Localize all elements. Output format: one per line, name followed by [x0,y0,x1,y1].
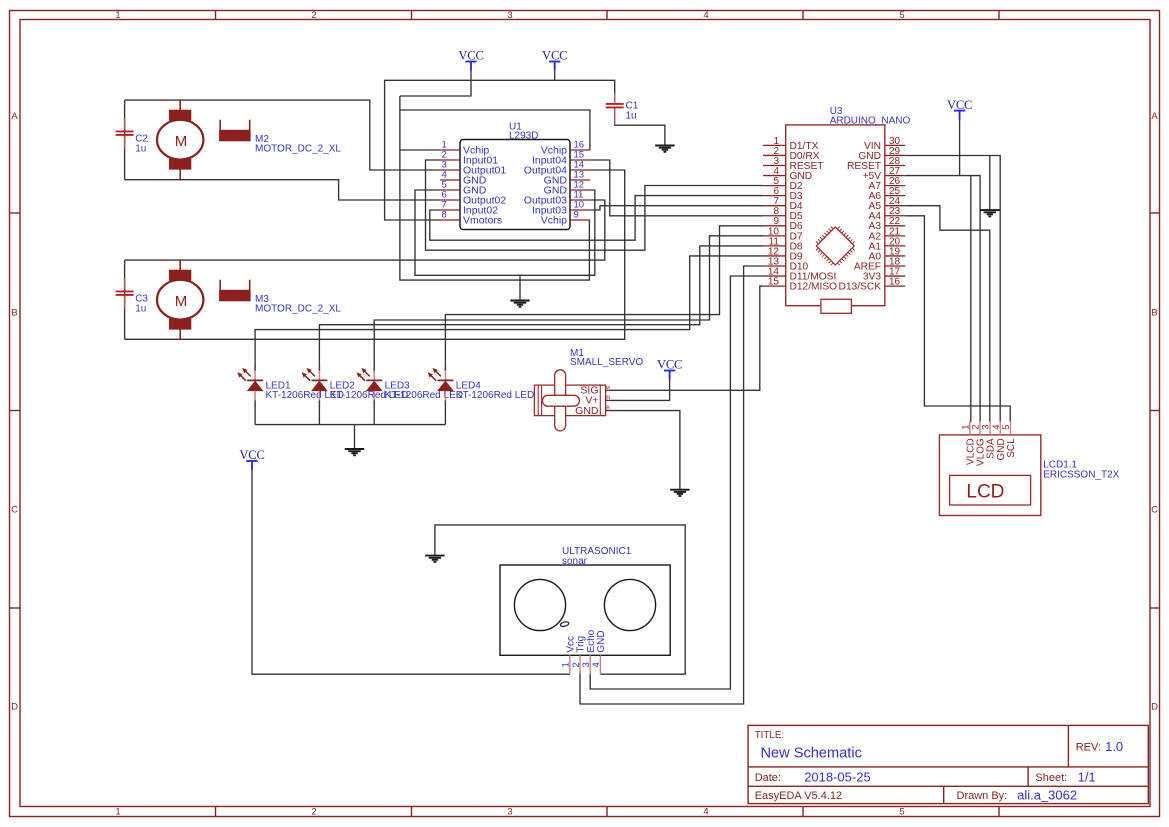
svg-text:C: C [11,505,18,516]
svg-text:5: 5 [899,806,904,817]
display LCD1.1 ERICSSON_T2X [939,421,1119,516]
svg-text:1/1: 1/1 [1078,769,1096,784]
svg-text:sonar: sonar [562,556,588,567]
svg-text:15: 15 [768,277,780,288]
svg-text:4: 4 [703,806,708,817]
svg-text:2018-05-25: 2018-05-25 [804,769,871,784]
svg-text:MOTOR_DC_2_XL: MOTOR_DC_2_XL [255,144,341,155]
wire - sonar Echo to Arduino D11/MOSI [590,276,763,689]
svg-text:A: A [11,111,18,122]
wire - servo SIG to Arduino D12/MISO [611,286,763,390]
wire - GND stub to ground right of Arduino [989,156,991,211]
servo M1 SMALL_SERVO [534,348,643,431]
wire - Vchip branch to U1 pin16 [400,110,590,150]
ground - sonar [425,556,444,562]
svg-text:SMALL_SERVO: SMALL_SERVO [570,357,643,368]
diode LED1 KT-1206Red LED [237,366,344,406]
svg-text:8: 8 [442,210,447,221]
wire - VCC2 stub to rail [554,71,556,81]
wire - LED1 anode to Arduino D9 [255,256,763,367]
wire - servo V+ to VCC3 [611,380,670,401]
wire - Arduino pin29 GND to LCD pin4 [905,156,1000,423]
wire - M3 loop bottom edge to U1 pin14 [125,170,625,339]
IC U1 L293D [440,121,590,229]
svg-text:Sheet:: Sheet: [1035,772,1067,784]
svg-text:3: 3 [507,806,512,817]
wire - M2 loop bottom edge to U1 pin6 [125,180,440,200]
svg-text:Drawn By:: Drawn By: [957,790,1008,802]
svg-text:L293D: L293D [509,131,538,142]
svg-text:New Schematic: New Schematic [761,746,862,762]
svg-text:Date:: Date: [755,772,781,784]
svg-text:B: B [606,405,610,411]
wire - Arduino pin27 +5V to LCD pin2 [905,176,980,422]
svg-text:GND: GND [575,405,599,417]
diode LED2 KT-1206Red LED [302,366,409,406]
ground - under U1 [510,301,529,307]
svg-text:GND: GND [596,630,607,652]
wire - M2 loop top edge to U1 pin3 [125,100,440,170]
svg-text:KT-1206Red LED: KT-1206Red LED [456,390,534,401]
wire - LED3 anode to Arduino D7 [374,236,763,367]
svg-text:ERICSSON_T2X: ERICSSON_T2X [1043,469,1119,480]
capacitor C3 1u [116,278,149,314]
power flag VCC (VCC2 above C1) [542,49,567,71]
ground - C1 [655,146,674,152]
svg-text:B: B [1151,308,1157,319]
power flag VCC (VCC5 sonar supply) [239,448,264,470]
svg-text:4: 4 [591,662,602,667]
power flag VCC (VCC1 above U1) [458,49,483,71]
power flag VCC (VCC4 arduino +5V) [947,98,972,120]
svg-text:1: 1 [115,10,120,21]
svg-text:LCD: LCD [966,482,1004,503]
wire - M3 loop top edge to U1 pin11 [125,200,605,260]
wire - Arduino pin24 A5 to LCD pin3 SDA [905,206,990,422]
svg-text:KT-1206Red LED: KT-1206Red LED [385,390,463,401]
wire - LED2 anode to Arduino D8 [319,246,763,367]
ground - LED rail [345,449,364,455]
wire - U1 pin7 Input02 to Arduino D3 [430,196,763,241]
svg-text:w: w [605,385,610,391]
svg-text:M: M [175,293,188,310]
ground - arduino [980,210,999,216]
wire - U1 pin15 Input04 to Arduino D5 [590,160,763,216]
wire - M3 loop left edge through C3 [124,260,126,339]
svg-text:Vmotors: Vmotors [463,215,502,227]
title block [748,725,1148,803]
wire - sonar GND to ground [435,525,685,674]
wire - LED cathodes common rail [255,405,445,449]
svg-text:2: 2 [311,806,316,817]
svg-text:4: 4 [703,10,708,21]
svg-text:Vchip: Vchip [541,215,567,227]
wire - Vchip branch to U1 pin1 [400,149,440,151]
wire - +5V branch to LCD pin1 VLCD [970,176,972,422]
svg-text:ali.a_3062: ali.a_3062 [1017,787,1077,802]
wire - LED4 anode to Arduino D6 [445,226,763,367]
wire - GND stub to ground under U1 [519,275,521,300]
svg-text:D: D [1151,702,1158,713]
svg-text:ARDUINO_NANO: ARDUINO_NANO [830,115,911,126]
wire - U1 pin10 Input03 to Arduino D4 [590,206,763,210]
motor M2 MOTOR_DC_2_XL [157,100,341,180]
svg-text:16: 16 [889,277,901,288]
svg-text:3: 3 [507,10,512,21]
svg-text:M: M [175,133,188,150]
wire - servo GND to ground [611,411,680,490]
U3 USB connector rectangle [821,299,852,313]
wire - C1 bottom to ground [615,125,665,146]
svg-text:D12/MISO: D12/MISO [790,282,838,293]
wire - VCC5 down-rail to sonar Vcc pin [252,470,570,674]
svg-text:R: R [606,395,610,401]
svg-text:5: 5 [1001,424,1012,429]
svg-text:D13/SCK: D13/SCK [839,282,882,293]
motor M3 MOTOR_DC_2_XL [157,260,341,340]
svg-text:5: 5 [899,10,904,21]
wire - VCC rail to U1 pin8 Vmotors and C1 [385,80,615,220]
svg-text:1: 1 [115,806,120,817]
svg-text:1.0: 1.0 [1105,739,1123,754]
U3 MCU diamond glyph [816,227,855,266]
diode LED3 KT-1206Red LED [356,366,463,406]
wire - VCC4 stub [959,120,961,176]
svg-text:SCL: SCL [1006,438,1017,458]
ground - servo [670,490,689,496]
wire - U1 pin2 Input01 to Arduino D2 [426,160,764,250]
wire - VCC1 stub to Vchip net [400,71,471,97]
sensor ULTRASONIC1 sonar [500,546,670,674]
wire - Vchip net vertical (U1 pins 1,9,16) [400,96,590,280]
svg-text:1u: 1u [135,303,146,314]
svg-text:B: B [11,308,17,319]
wire - sonar Trig to Arduino D10 [580,266,763,704]
power flag VCC (VCC3 servo supply) [657,358,682,380]
diode LED4 KT-1206Red LED [428,366,535,406]
svg-text:D: D [11,702,18,713]
svg-text:REV:: REV: [1076,741,1101,753]
svg-text:9: 9 [574,210,579,221]
svg-text:EasyEDA V5.4.12: EasyEDA V5.4.12 [755,790,842,802]
IC U3 ARDUINO_NANO [763,106,910,306]
wire - M2 loop left edge through C2 [124,100,126,180]
wire - Arduino pin23 A4 to LCD pin5 SCL [905,216,1010,422]
svg-text:1u: 1u [135,143,146,154]
capacitor C2 1u [116,118,149,154]
svg-text:MOTOR_DC_2_XL: MOTOR_DC_2_XL [255,304,341,315]
capacitor C1 1u [606,93,639,125]
svg-text:2: 2 [311,10,316,21]
svg-text:A: A [1151,111,1158,122]
wire - GND loop U1 pins 5 and 12 [415,190,595,275]
svg-text:C: C [1151,505,1158,516]
svg-text:1u: 1u [626,111,637,122]
svg-text:TITLE:: TITLE: [755,730,784,741]
